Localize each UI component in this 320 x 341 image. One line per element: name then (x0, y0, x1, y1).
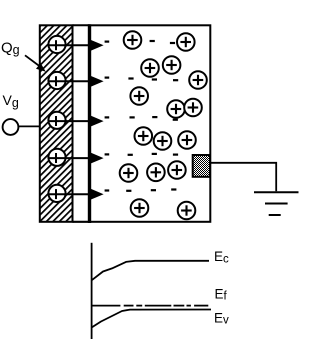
gate charge Q5 (circled +) (48, 185, 65, 202)
hole h6 (circled +) (130, 87, 148, 105)
gate charge Q3 (circled +) (48, 112, 65, 129)
hole h16 (circled +) (178, 202, 196, 220)
electron minus at arrow 5 tip (105, 189, 110, 191)
gate electrode (hatched metal) (40, 25, 73, 222)
hole h3 (circled +) (141, 59, 159, 77)
oxide layer (gap) outline top (73, 24, 90, 26)
electron e4 (minus) (152, 78, 157, 80)
hole h8 (circled +) (184, 99, 202, 117)
electron e12 (minus) (126, 190, 131, 192)
electron e11 (minus) (173, 154, 178, 156)
electron e8 (minus) (173, 119, 178, 121)
field arrow 5 (49, 189, 104, 200)
band diagram axis (interface line) (91, 243, 93, 339)
hole h11 (circled +) (178, 131, 196, 149)
electron e1 (minus) (150, 40, 155, 42)
field arrow 3 (49, 116, 104, 127)
semiconductor body outline (90, 25, 211, 222)
svg-text:Qg: Qg (1, 40, 20, 58)
svg-text:Ev: Ev (214, 311, 229, 327)
hole h13 (circled +) (147, 164, 165, 182)
electron minus at arrow 3 tip (105, 116, 110, 118)
electron minus at arrow 4 tip (105, 153, 110, 155)
hole h4 (circled +) (163, 56, 181, 74)
electron e10 (minus) (152, 153, 157, 155)
svg-text:Ec: Ec (214, 249, 229, 265)
svg-text:Vg: Vg (3, 92, 19, 110)
electron minus at arrow 1 tip (105, 41, 110, 43)
ohmic contact (stippled) (193, 155, 210, 177)
field arrow 1 (49, 40, 104, 51)
arrow from Qg label to gate (25, 55, 46, 72)
Ev valence band curve (92, 310, 211, 328)
electron e9 (minus) (128, 154, 133, 156)
gate charge Q1 (circled +) (48, 36, 65, 53)
svg-text:Ef: Ef (215, 287, 228, 303)
electron e3 (minus) (128, 77, 133, 79)
wire from contact to ground (210, 163, 276, 192)
ground symbol (254, 192, 299, 215)
gate charge Q4 (circled +) (48, 149, 65, 166)
electron e14 (minus) (171, 188, 176, 190)
hole h12 (circled +) (120, 164, 138, 182)
hole h2 (circled +) (177, 33, 195, 51)
electron e2 (minus) (170, 42, 175, 44)
terminal Vg (open circle) (3, 119, 19, 135)
field arrow 4 (49, 153, 104, 164)
Ef Fermi level (dash-dot line) (92, 305, 209, 307)
field arrow 2 (49, 76, 104, 87)
oxide layer (gap) outline bottom (73, 221, 90, 223)
electron e7 (minus) (152, 116, 157, 118)
hole h15 (circled +) (131, 199, 149, 217)
hole h14 (circled +) (168, 161, 186, 179)
hole h10 (circled +) (154, 132, 172, 150)
hole h5 (circled +) (189, 71, 207, 89)
Ec conduction band curve (92, 261, 209, 281)
electron e5 (minus) (173, 79, 178, 81)
thick interface line (semiconductor left edge) (88, 24, 91, 223)
electron minus at arrow 2 tip (105, 77, 110, 79)
hole h9 (circled +) (135, 127, 153, 145)
electron e6 (minus) (130, 116, 135, 118)
hole h1 (circled +) (124, 31, 142, 49)
electron e13 (minus) (151, 189, 156, 191)
hole h7 (circled +) (167, 100, 185, 118)
gate charge Q2 (circled +) (48, 72, 65, 89)
wire Vg terminal to gate (19, 125, 40, 127)
